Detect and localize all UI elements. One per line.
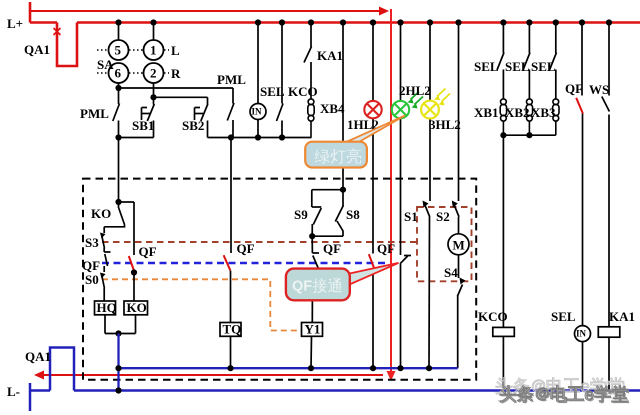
svg-text:KCO: KCO [478,309,508,324]
selector SA contact 5 [109,40,129,60]
wire bottom bus left segment [119,137,154,139]
svg-text:IN: IN [576,329,587,339]
lamp 2HL2 [392,101,409,118]
coil TQ [220,322,241,337]
contact QF above TQ (red closed) [224,255,231,270]
svg-text:QF: QF [139,244,157,259]
coil KO [124,300,148,315]
wire XB bottom bus [503,134,555,136]
svg-text:L-: L- [7,384,20,399]
svg-text:SEL: SEL [474,59,499,74]
node midbus-1HL2 [370,365,376,371]
selector SA contact 6 [109,63,129,83]
callout box green lamp on [305,142,367,168]
selector SA dotted links [97,50,169,73]
switch SEL lamp1 [497,23,504,99]
node QF-KO hinge [131,269,137,275]
red annotation vertical [387,9,396,381]
meter IN upper branch [250,23,266,138]
svg-text:KO: KO [91,206,111,221]
node bus-TQ [228,134,234,140]
svg-text:S0: S0 [85,272,99,287]
svg-text:PML: PML [217,72,246,87]
branch S8 S9 feed [342,23,344,190]
svg-text:S4: S4 [444,265,458,280]
node bus-PML1 [115,134,121,140]
svg-text:S3: S3 [85,235,99,250]
contact S4 arrow [460,278,466,285]
contact S1 with arrow [425,205,430,217]
svg-text:KO: KO [127,300,147,315]
selector SA feed wires [119,23,154,41]
svg-text:PML: PML [80,106,109,121]
socket XB1 [500,99,506,135]
wire KCO feed [502,135,504,327]
svg-text:XB4: XB4 [320,101,345,116]
node rail-1HL2 [370,19,376,25]
selector SA contact 1 [144,40,164,60]
node B2 [150,94,156,100]
contact S2 arrow [452,201,458,208]
svg-text:QF: QF [377,241,395,256]
meter IN lower [575,326,591,342]
node midbus-Y1 [308,365,314,371]
svg-text:QA1: QA1 [24,42,50,57]
svg-text:1: 1 [150,43,157,58]
svg-text:QF: QF [237,241,255,256]
svg-text:XB1: XB1 [474,105,499,120]
node S8S9 top [340,187,346,193]
contact S3 arrow [100,233,106,239]
node rail-SELu [279,19,285,25]
contact KA1 [304,23,312,99]
svg-text:L+: L+ [7,16,23,31]
socket XB2 [526,99,532,135]
contact S0 arrow [100,273,106,279]
node S8S9 bottom [309,233,315,239]
svg-text:KA1: KA1 [317,48,343,63]
lamp 2HL2 branch [400,23,402,369]
svg-text:S9: S9 [294,207,308,222]
contact QF above Y1 [312,236,319,322]
node rail-S8 [340,19,346,25]
lamp 3HL2 branch [429,23,430,369]
lamp 3HL2 lit arrows [434,89,450,106]
dashed orange line S0 to Y1 [102,279,302,330]
node bus-SEL [279,134,285,140]
lamp 1HL2 [364,101,381,118]
callout box QF on [286,269,350,301]
wire L+ rail red [30,2,640,66]
coil Y1 [302,322,323,337]
svg-text:M: M [453,238,465,253]
branch S2 M S4 [448,23,469,369]
red annotation arrow top [30,7,389,16]
wire KO merge to L- blue [117,334,119,391]
lamp 3HL2 [421,101,439,119]
node rail-WS [606,19,612,25]
svg-text:S1: S1 [404,209,418,224]
selector SA contact 2 [144,63,164,83]
lamp 1HL2 branch [372,23,374,369]
svg-text:S2: S2 [436,209,450,224]
switch PML2 [227,88,234,138]
wire S8S9 bottom link [312,235,343,237]
svg-text:SB2: SB2 [182,118,204,133]
chain S3 QF S0 [102,227,111,301]
wire S9 top link [312,189,343,191]
svg-text:SA: SA [97,57,114,72]
svg-text:SEL: SEL [505,59,530,74]
svg-text:QA1: QA1 [25,349,51,364]
node L-KO [115,387,121,393]
wire TQ to bus [230,336,232,368]
svg-text:XB2: XB2 [505,105,530,120]
node rail-2HL2 [397,19,403,25]
coil HQ [95,300,117,315]
svg-text:6: 6 [115,66,122,81]
breaker QA1 x-mark [54,28,61,35]
dashed brown line S3 level [102,241,417,243]
node midbus-S1 [426,365,432,371]
callout pointer green [344,116,405,144]
wire mid blue bus [119,367,458,369]
breaker QF main (red closed) [581,23,584,391]
watermark ghost [496,378,624,395]
switch SEL upper [277,23,284,138]
svg-text:2: 2 [150,66,157,81]
dashed blue line QF level [102,262,385,264]
node rail-SEL3 [553,19,559,25]
svg-text:XB3: XB3 [531,105,556,120]
contact QF main red blade [576,98,583,114]
svg-text:QF: QF [565,81,583,96]
callout pointer QF [350,263,399,285]
node rail-IN [255,19,261,25]
node rail-QF [579,19,585,25]
svg-text:QF: QF [82,258,100,273]
svg-text:SEL: SEL [551,309,576,324]
svg-text:R: R [171,66,181,81]
node rail-1 [150,19,156,25]
wire KCO to L- [502,336,504,390]
watermark shadow [501,387,629,404]
watermark main [500,386,628,403]
red annotation arrow bottom [34,371,383,380]
wire line B from contact 2 [154,83,208,97]
svg-text:QF: QF [323,241,341,256]
svg-text:HQ: HQ [97,300,117,315]
wire Y1 to bus [310,336,313,368]
node rail-SEL1 [500,19,506,25]
lamp 2HL2 lit arrows [408,92,424,109]
switch SEL lamp2 [523,23,530,99]
branch KO HQ [118,138,120,203]
node KO-top [115,199,121,205]
svg-text:S8: S8 [346,207,360,222]
svg-text:L: L [171,43,180,58]
callout text 绿灯亮 [315,148,361,164]
svg-text:KA1: KA1 [609,309,635,324]
node rail-5 [115,19,121,25]
switch SEL lamp3 [550,23,557,99]
node rail-3HL2 [427,19,433,25]
node midbus-KO [115,365,121,371]
wire KO right branch [119,202,135,301]
svg-text:2HL2: 2HL2 [399,83,431,98]
coil KA1 [598,327,620,337]
contact S8 [335,190,343,237]
contact S9 [312,190,322,237]
node rail-SEL2 [526,19,532,25]
pushbutton SB2 [195,97,208,137]
branch TQ [230,138,233,323]
dashed control box [83,179,476,380]
wire line A from contact 6 [119,83,234,88]
node XB2-bus [526,132,532,138]
node XB1-bus [500,132,506,138]
node A6 [115,85,121,91]
switch WS [602,23,610,391]
node rail-KA1 [308,19,314,25]
svg-text:KCO: KCO [288,84,318,99]
svg-text:WS: WS [589,82,609,97]
contact QF on 2HL2 [400,256,411,264]
wire bottom bus right segment [208,137,312,139]
dashed brown box S1 S2 [417,207,472,281]
node rail-S2 [455,19,461,25]
switch PML1 [113,88,120,138]
svg-text:5: 5 [115,43,122,58]
contact QF KO-branch (red closed) [129,256,135,273]
node midbus-2HL2 [397,365,403,371]
svg-text:Y1: Y1 [305,322,321,337]
contact KO [104,202,124,227]
svg-text:QF: QF [292,279,312,295]
svg-text:TQ: TQ [223,322,242,337]
svg-text:SEL: SEL [531,59,556,74]
node merge [115,330,121,336]
node bus-IN [255,134,261,140]
contact QF on 1HL2 (red closed) [369,254,375,269]
socket XB3 [553,99,559,135]
svg-text:3HL2: 3HL2 [429,117,461,132]
wire coils merge [105,315,136,334]
socket XB4 [308,99,314,138]
svg-text:SB1: SB1 [132,118,154,133]
node midbus-TQ [227,365,233,371]
wire L- rail blue [30,348,640,412]
svg-text:IN: IN [252,107,263,117]
pushbutton SB1 [142,97,155,137]
coil KCO [493,327,515,336]
